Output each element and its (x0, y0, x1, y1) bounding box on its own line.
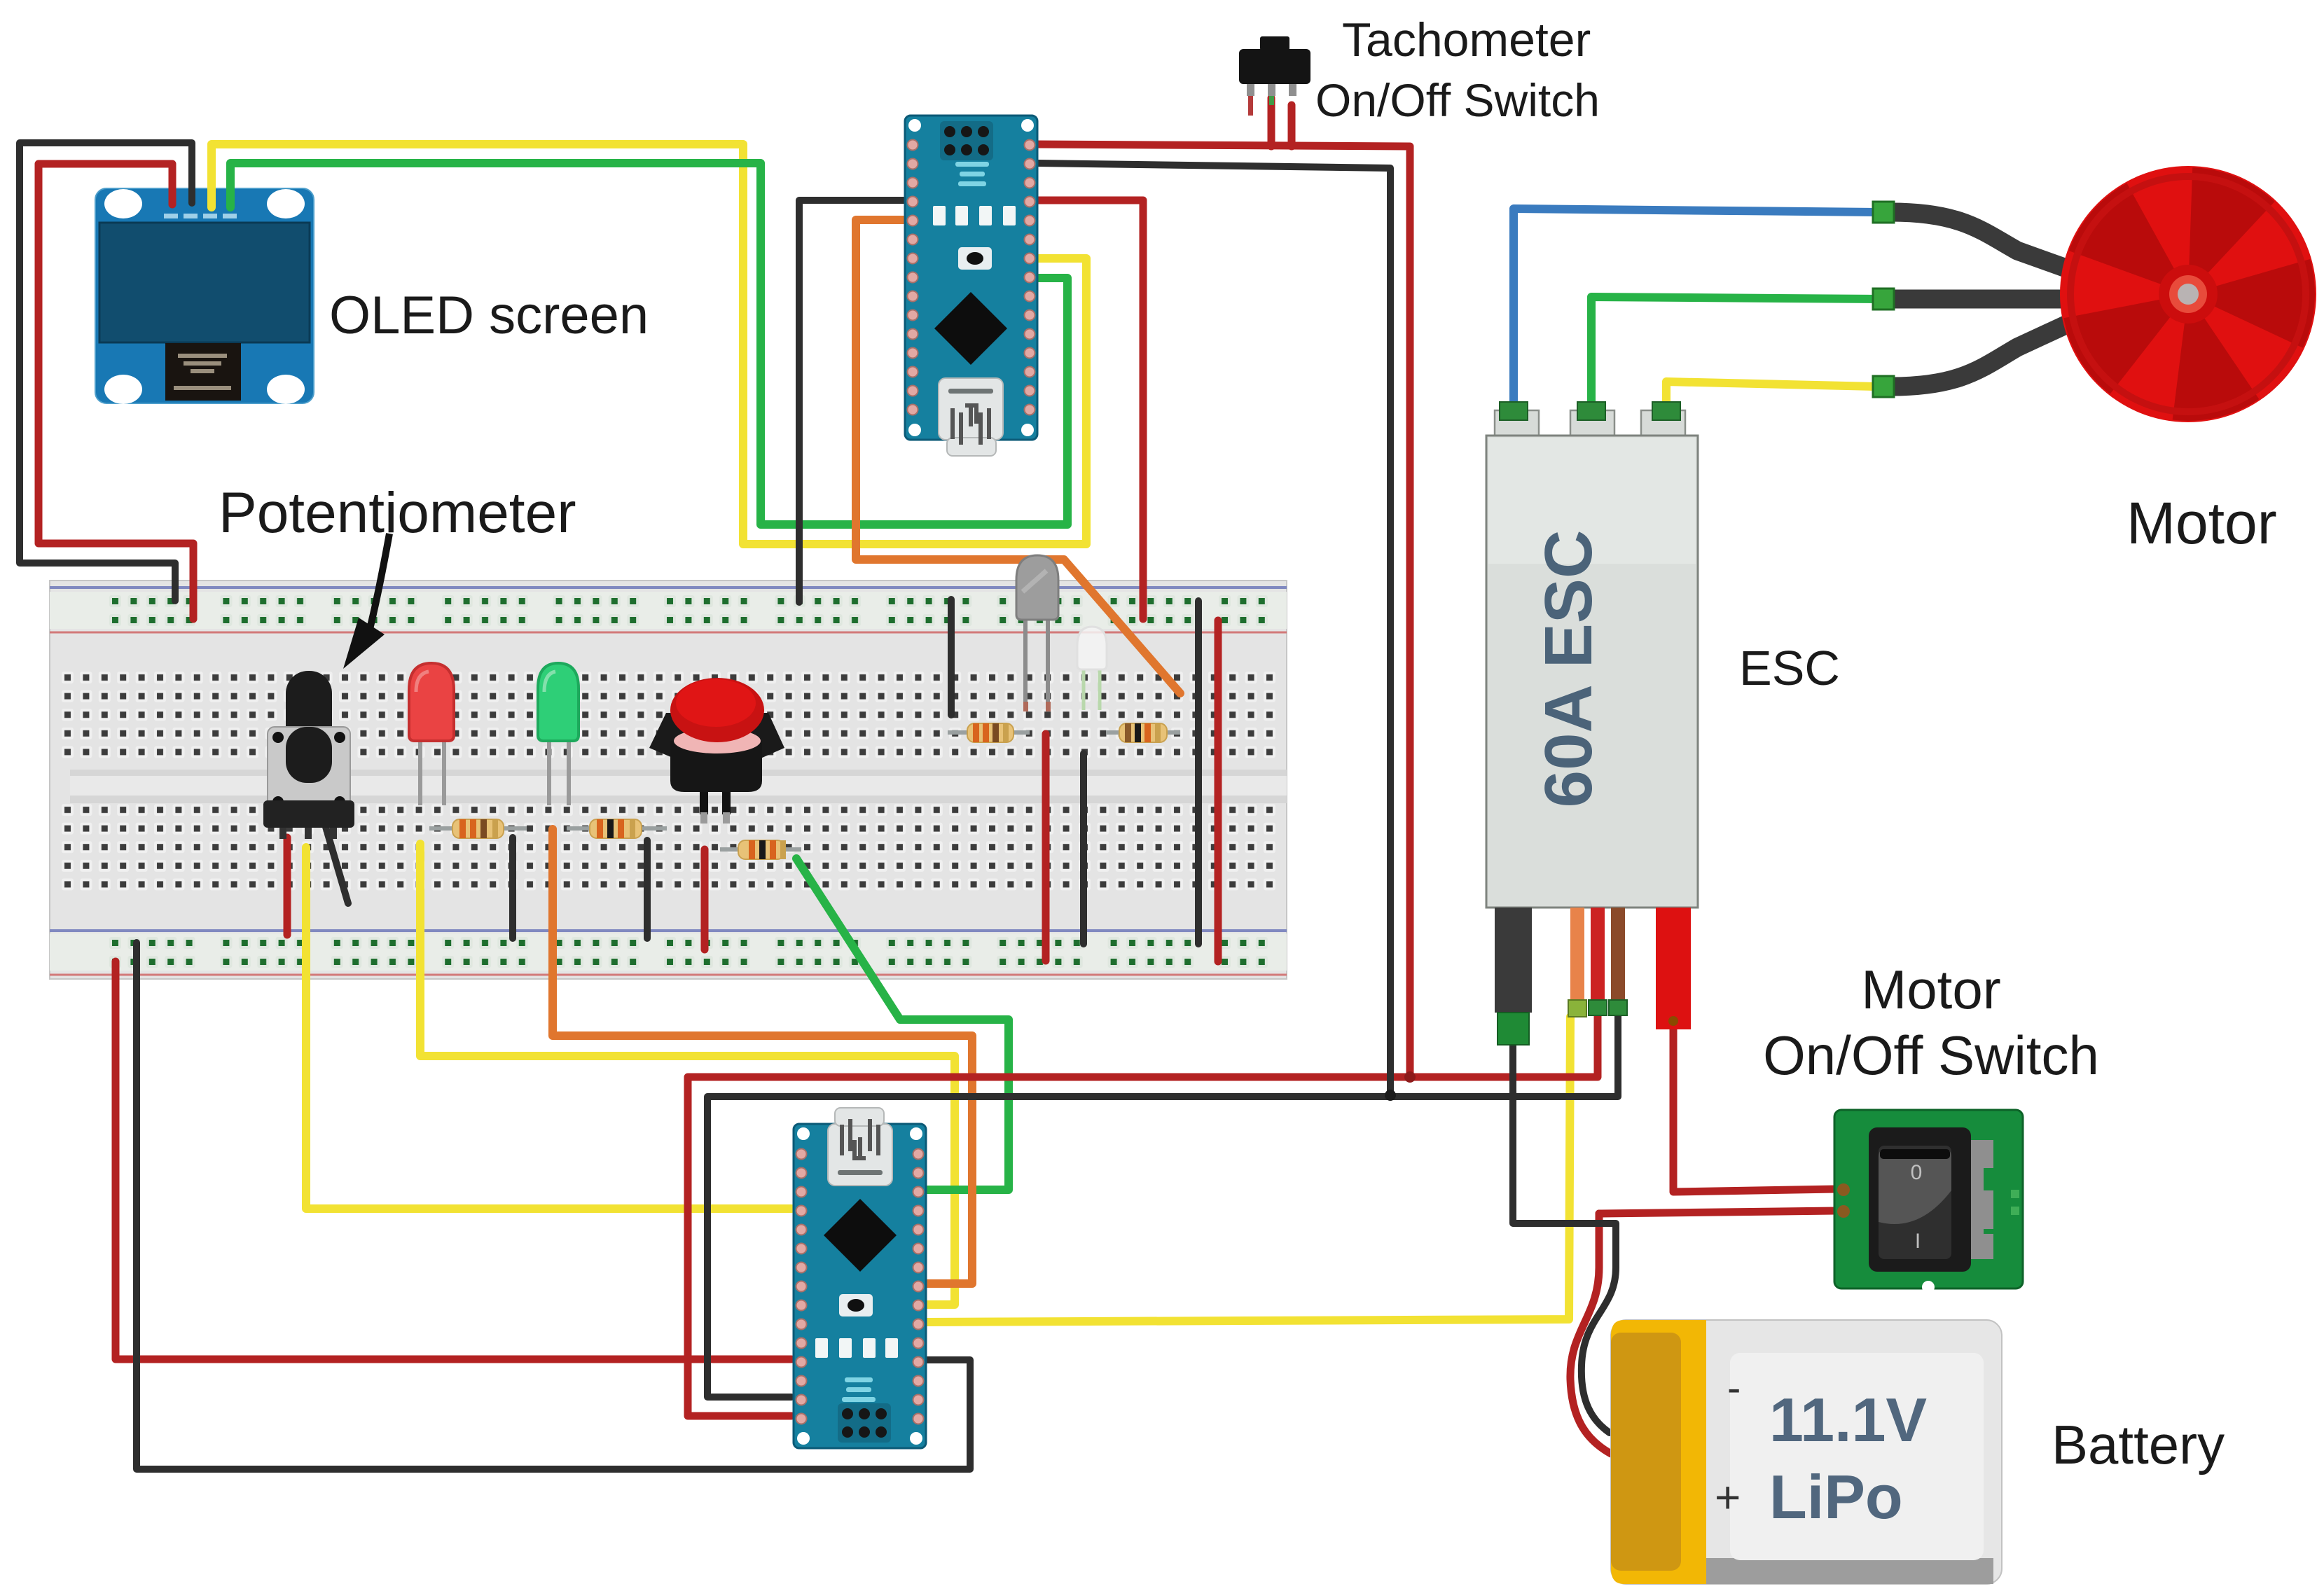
svg-text:60A ESC: 60A ESC (1531, 530, 1606, 808)
svg-text:LiPo: LiPo (1769, 1462, 1903, 1531)
svg-text:Tachometer: Tachometer (1342, 13, 1591, 67)
svg-text:-: - (1727, 1366, 1741, 1411)
svg-text:Motor: Motor (1861, 959, 2000, 1020)
svg-text:Motor: Motor (2126, 490, 2277, 556)
svg-text:0: 0 (1911, 1161, 1923, 1184)
svg-text:ESC: ESC (1739, 641, 1840, 695)
svg-text:OLED screen: OLED screen (329, 286, 649, 345)
svg-text:On/Off Switch: On/Off Switch (1315, 74, 1600, 126)
svg-text:+: + (1715, 1472, 1741, 1522)
svg-text:I: I (1915, 1230, 1921, 1253)
svg-text:On/Off Switch: On/Off Switch (1763, 1024, 2099, 1086)
svg-text:11.1V: 11.1V (1769, 1385, 1927, 1454)
svg-text:Potentiometer: Potentiometer (219, 481, 576, 545)
svg-text:Battery: Battery (2052, 1414, 2225, 1475)
